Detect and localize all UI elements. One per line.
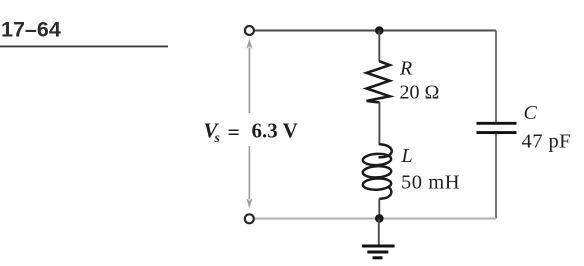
terminal bottom	[245, 214, 254, 223]
capacitor C plate bottom	[477, 131, 517, 134]
svg-text:L: L	[401, 145, 413, 167]
header rule	[0, 45, 168, 47]
resistor R	[367, 61, 390, 102]
ground bar 1	[362, 245, 395, 248]
wire right lower	[495, 134, 497, 219]
svg-text:R: R	[399, 58, 412, 80]
svg-text:50 mH: 50 mH	[401, 172, 460, 194]
svg-text:6.3 V: 6.3 V	[252, 119, 298, 143]
wire inductor-junction	[378, 199, 380, 219]
ground bar 3	[373, 256, 383, 259]
svg-text:=: =	[228, 120, 240, 144]
junction top	[375, 26, 384, 35]
ground stem	[378, 219, 380, 246]
svg-text:C: C	[524, 102, 538, 124]
vs arrow upper	[246, 39, 252, 113]
svg-text:17–64: 17–64	[1, 18, 61, 42]
svg-text:47 pF: 47 pF	[522, 130, 572, 152]
wire top	[249, 30, 496, 32]
wire resistor-inductor	[378, 102, 380, 145]
svg-text:s: s	[214, 131, 221, 146]
wire right upper	[495, 31, 497, 123]
inductor L	[363, 144, 392, 198]
svg-text:20 Ω: 20 Ω	[400, 81, 440, 103]
wire bottom	[249, 218, 496, 220]
wire junction-resistor	[378, 31, 380, 62]
ground bar 2	[367, 251, 388, 254]
capacitor C plate top	[477, 122, 517, 125]
junction bottom	[375, 214, 384, 223]
vs arrow lower	[246, 146, 252, 209]
label Vs = 6.3 V	[204, 119, 298, 146]
terminal top	[245, 26, 254, 35]
